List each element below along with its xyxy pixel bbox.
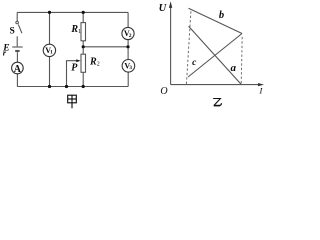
svg-text:b: b — [219, 10, 224, 21]
svg-text:U: U — [159, 3, 168, 14]
svg-text:A: A — [14, 64, 22, 75]
svg-text:c: c — [192, 58, 197, 68]
svg-text:a: a — [230, 62, 236, 74]
svg-text:I: I — [259, 86, 264, 96]
svg-text:S: S — [10, 27, 15, 37]
svg-text:O: O — [160, 86, 167, 97]
svg-text:2: 2 — [129, 33, 132, 39]
svg-text:P: P — [71, 62, 78, 73]
svg-text:2: 2 — [97, 62, 100, 68]
svg-text:1: 1 — [50, 50, 53, 56]
svg-text:1: 1 — [78, 29, 81, 35]
svg-text:3: 3 — [129, 65, 132, 71]
